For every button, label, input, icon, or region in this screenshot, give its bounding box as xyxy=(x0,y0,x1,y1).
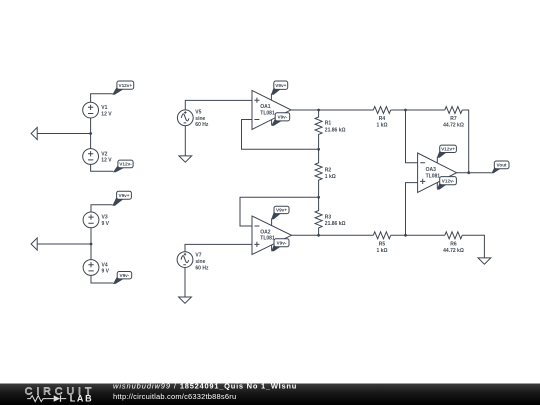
svg-text:TL081: TL081 xyxy=(260,110,275,116)
svg-text:1 kΩ: 1 kΩ xyxy=(325,174,336,180)
wire OA3 output to Vout xyxy=(457,172,492,174)
flag Vout xyxy=(491,161,509,173)
svg-text:60 Hz: 60 Hz xyxy=(195,265,209,271)
svg-text:V3: V3 xyxy=(102,215,108,221)
svg-text:V12v-: V12v- xyxy=(442,179,455,184)
wire OA3 inverting input xyxy=(406,110,418,163)
svg-text:12 V: 12 V xyxy=(101,158,112,164)
resistor R7 xyxy=(443,107,464,129)
wire V7 to OA2 + input xyxy=(185,244,252,252)
svg-text:V1: V1 xyxy=(101,105,107,111)
node R2/R3 xyxy=(317,196,320,199)
wire V4 bottom to flag V9v- xyxy=(91,275,113,283)
flag V9v- (OA1 bottom) xyxy=(271,113,290,126)
svg-text:wisnubudiw99 / 18524091_Quis N: wisnubudiw99 / 18524091_Quis No 1_WIsnu xyxy=(113,382,297,391)
ground R6 xyxy=(478,258,491,264)
svg-text:TL081: TL081 xyxy=(260,236,275,242)
wire V5 to OA1 + input xyxy=(185,100,252,109)
wire R7 to OA3 output node xyxy=(462,110,469,173)
resistor R4 xyxy=(373,107,390,129)
voltage source V3 xyxy=(83,212,110,228)
node OA3 output xyxy=(467,171,470,174)
svg-text:1 kΩ: 1 kΩ xyxy=(377,123,388,129)
wire R5 to R6 xyxy=(391,234,445,236)
voltage source V4 xyxy=(83,260,110,276)
wire V3 to V4 xyxy=(90,228,92,260)
flag V9v- xyxy=(113,272,132,285)
wire to left ground 2 xyxy=(37,243,91,245)
wire V1 top to flag V12v+ xyxy=(91,94,113,103)
resistor R3 xyxy=(315,197,345,235)
OA2 V+ pin wire xyxy=(271,218,273,225)
voltage source V2 xyxy=(83,149,113,165)
wire R6 to ground xyxy=(462,235,484,258)
node R3/OA2 out xyxy=(317,234,320,237)
svg-text:R1: R1 xyxy=(325,121,332,127)
node OA1 out / R1 xyxy=(317,109,320,112)
flag V9v+ xyxy=(112,191,131,206)
voltage source V1 xyxy=(83,102,113,118)
svg-text:21.86 kΩ: 21.86 kΩ xyxy=(325,221,346,227)
ground (left-pointing) xyxy=(31,127,37,139)
svg-text:1 kΩ: 1 kΩ xyxy=(377,248,388,254)
svg-text:60 Hz: 60 Hz xyxy=(195,122,209,128)
node junction V3/V4 xyxy=(90,243,93,246)
svg-text:V5: V5 xyxy=(195,109,201,115)
svg-text:R2: R2 xyxy=(325,167,332,173)
svg-text:R4: R4 xyxy=(379,116,386,122)
resistor R6 xyxy=(443,232,464,254)
flag V12v+ (OA3 top) xyxy=(437,145,457,158)
node junction V1/V2 xyxy=(89,132,92,135)
svg-text:9 V: 9 V xyxy=(102,269,110,275)
ground V7 xyxy=(179,297,192,303)
svg-text:V9v+: V9v+ xyxy=(275,83,286,88)
resistor R2 xyxy=(315,149,336,197)
wire V7 to ground xyxy=(184,268,186,298)
wire V1 to V2 xyxy=(90,118,92,149)
svg-text:44.72 kΩ: 44.72 kΩ xyxy=(443,248,464,254)
svg-text:12 V: 12 V xyxy=(101,111,112,117)
svg-text:R6: R6 xyxy=(450,242,457,248)
svg-text:21.86 kΩ: 21.86 kΩ xyxy=(325,127,346,133)
OA1 V+ pin wire xyxy=(270,94,272,100)
svg-text:V9v+: V9v+ xyxy=(276,208,287,213)
svg-text:V9v-: V9v- xyxy=(277,115,287,120)
node R5/R6/OA3+ xyxy=(404,234,407,237)
svg-text:V7: V7 xyxy=(195,253,201,259)
resistor R1 xyxy=(315,110,345,149)
ground (left-pointing) 2 xyxy=(31,238,37,250)
svg-text:TL081: TL081 xyxy=(426,173,441,179)
svg-text:http://circuitlab.com/c6332tb8: http://circuitlab.com/c6332tb88s6ru xyxy=(113,392,236,401)
OA2 V- pin wire xyxy=(271,245,273,251)
resistor R5 xyxy=(373,232,390,254)
OA1 negative feedback wire to R1/R2 node xyxy=(242,120,318,150)
svg-text:V9v-: V9v- xyxy=(277,241,287,246)
svg-text:OA1: OA1 xyxy=(260,104,271,110)
wire R4 to R7 xyxy=(391,109,445,111)
svg-text:V9v+: V9v+ xyxy=(118,193,129,198)
wire V3 top to flag V9v+ xyxy=(91,205,113,212)
wire to left ground xyxy=(37,133,90,135)
svg-text:V12v-: V12v- xyxy=(119,162,132,167)
svg-text:R7: R7 xyxy=(450,116,457,122)
sine source V7 xyxy=(177,252,209,272)
op-amp OA2 (TL081) xyxy=(252,216,292,255)
wire OA2 output xyxy=(292,234,374,236)
svg-text:V12v+: V12v+ xyxy=(441,147,455,152)
flag V9v+ (OA2 top) xyxy=(271,206,289,219)
flag V12v- xyxy=(113,160,133,172)
svg-text:sine: sine xyxy=(195,259,205,265)
op-amp OA3 (TL081) xyxy=(418,153,457,192)
svg-text:sine: sine xyxy=(195,116,205,122)
wire V5 to ground xyxy=(184,126,186,156)
wire OA3 non-inverting input xyxy=(406,183,418,236)
flag V12v- (OA3 bottom) xyxy=(437,177,457,190)
wire OA1 output xyxy=(291,109,373,111)
svg-text:9 V: 9 V xyxy=(102,221,110,227)
op-amp OA1 (TL081) xyxy=(252,90,291,129)
OA2 inverting input wire to R2/R3 node xyxy=(240,197,317,226)
node R1/R2 xyxy=(317,148,320,151)
CircuitLab logo xyxy=(25,385,96,403)
flag V12v+ xyxy=(112,81,134,95)
svg-text:44.72 kΩ: 44.72 kΩ xyxy=(443,123,464,129)
node R4/R7/OA3- xyxy=(404,109,407,112)
svg-text:V12v+: V12v+ xyxy=(118,83,132,88)
OA3 V- pin wire xyxy=(436,183,438,189)
OA1 V- pin wire xyxy=(271,120,273,125)
svg-text:LAB: LAB xyxy=(70,394,94,404)
svg-text:OA3: OA3 xyxy=(426,167,437,173)
svg-text:R5: R5 xyxy=(379,242,386,248)
svg-text:V9v-: V9v- xyxy=(119,273,129,278)
OA3 V+ pin wire xyxy=(436,157,438,163)
flag V9v- (OA2 bottom) xyxy=(271,239,289,252)
svg-text:R3: R3 xyxy=(325,215,332,221)
svg-text:Vout: Vout xyxy=(497,163,508,168)
flag V9v+ (OA1 top) xyxy=(271,81,288,95)
wire V2 bottom to flag V12v- xyxy=(91,164,114,171)
svg-text:OA2: OA2 xyxy=(260,229,271,235)
sine source V5 xyxy=(177,109,208,128)
svg-text:V2: V2 xyxy=(101,151,107,157)
svg-text:V4: V4 xyxy=(102,262,108,268)
ground V5 xyxy=(179,156,192,162)
